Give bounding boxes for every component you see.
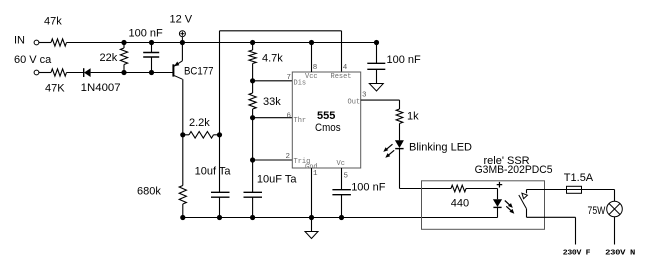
wire 100nF top stub [376, 43, 378, 64]
wire reset drop [341, 31, 343, 72]
junction dot pin6 [250, 115, 255, 120]
svg-text:Vc: Vc [337, 160, 345, 168]
wire 22k top stub [123, 43, 125, 49]
svg-text:555: 555 [317, 110, 335, 122]
capacitor 100nF supply [367, 62, 385, 64]
svg-text:680k: 680k [137, 186, 161, 198]
junction dot 22k bottom [121, 70, 126, 75]
wire pin1 down [311, 168, 313, 231]
junction dot 10uf rail [217, 215, 222, 220]
svg-text:Dis: Dis [294, 80, 307, 88]
junction dot 4.7k rail [250, 40, 255, 45]
junction dot pin7 [250, 78, 255, 83]
wire switch top out [527, 189, 567, 191]
svg-text:6: 6 [287, 113, 292, 121]
opto light arrows [505, 201, 512, 207]
relay SSR box [422, 181, 545, 230]
svg-text:10uf Ta: 10uf Ta [195, 166, 232, 178]
resistor 47k (top input) [51, 39, 67, 46]
power 12V symbol [179, 31, 185, 37]
resistor 1k [396, 109, 403, 124]
lamp 75W [607, 201, 623, 217]
resistor 33k [249, 93, 256, 109]
resistor 2.2k [189, 132, 214, 139]
svg-text:33k: 33k [263, 96, 281, 108]
svg-text:4.7k: 4.7k [262, 53, 283, 65]
svg-text:2: 2 [286, 153, 291, 161]
svg-text:47k: 47k [44, 16, 62, 28]
junction dot pin8 rail [309, 40, 314, 45]
wire diode to base [91, 72, 174, 74]
junction dot cap1 bottom [149, 70, 154, 75]
LED light arrows [385, 144, 393, 151]
wire ground rail [183, 217, 498, 219]
svg-text:12 V: 12 V [170, 14, 193, 26]
svg-text:Thr: Thr [294, 117, 307, 125]
wire pin6 [253, 117, 293, 119]
pin 8 Vcc [311, 43, 313, 73]
svg-text:7: 7 [287, 74, 292, 82]
svg-text:Cmos: Cmos [315, 122, 341, 134]
svg-text:100 nF: 100 nF [387, 54, 422, 66]
node 60V terminal [34, 70, 39, 75]
svg-text:1k: 1k [407, 111, 419, 123]
svg-text:2.2k: 2.2k [189, 117, 210, 129]
junction dot pin2 [250, 157, 255, 162]
node IN terminal [34, 40, 39, 45]
junction dot cap1 top [149, 40, 154, 45]
switch SSR contact [526, 190, 528, 194]
wire lamp to N [614, 217, 616, 245]
resistor 47K (bottom input) [51, 69, 67, 76]
resistor 680k [179, 186, 186, 205]
wire LED down [399, 149, 401, 189]
LED D1 blinking [395, 140, 404, 148]
wire cap1 bottom stub [151, 57, 153, 73]
svg-text:G3MB-202PDC5: G3MB-202PDC5 [475, 164, 553, 176]
wire 1k to LED [399, 124, 401, 141]
wire 2.2k left stub [183, 134, 189, 136]
junction dot 680k rail [180, 215, 185, 220]
svg-text:75W: 75W [588, 205, 606, 217]
wire reset link vertical [219, 31, 221, 193]
resistor 440 [451, 185, 466, 192]
wire 2.2k right stub [214, 134, 220, 136]
wire fuse to lamp [582, 189, 615, 191]
svg-text:Reset: Reset [331, 73, 352, 81]
wire 440 to opto [466, 188, 498, 190]
svg-text:22k: 22k [100, 52, 118, 64]
svg-text:1N4007: 1N4007 [81, 82, 121, 94]
wire 33k stubs [252, 81, 254, 93]
wire cap1 top stub [151, 43, 153, 53]
wire collector down [182, 79, 184, 185]
wire pin6 to pin2 [252, 118, 254, 160]
wire top rail [67, 42, 377, 44]
capacitor 100nF control [332, 189, 351, 191]
diode 1N4007 [83, 68, 85, 77]
wire 680k bottom [182, 204, 184, 218]
wire reset link horizontal [220, 30, 342, 32]
svg-text:230V F: 230V F [563, 250, 591, 258]
wire 100nF gnd stub [376, 69, 378, 83]
wire pin2 down to cap [252, 160, 254, 192]
LED opto emitter [493, 199, 502, 207]
svg-text:440: 440 [451, 198, 469, 210]
wire cap pin5 bottom [341, 195, 343, 218]
svg-text:BC177: BC177 [184, 66, 214, 78]
wire R47K to diode [67, 72, 84, 74]
transistor Q1 BC177 [172, 64, 174, 76]
junction dot 12V rail [180, 40, 185, 45]
resistor 22k [120, 48, 127, 65]
capacitor 100nF input [143, 52, 159, 54]
ground symbol chip [305, 232, 318, 239]
resistor 4.7k [249, 50, 256, 64]
wire pin2 [253, 159, 293, 161]
junction dot 100nF rail top [374, 40, 379, 45]
wire 4.7k to pin7 [252, 64, 254, 81]
svg-text:Out: Out [348, 99, 361, 107]
wire 22k bottom stub [123, 65, 125, 73]
svg-text:100 nF: 100 nF [351, 182, 386, 194]
svg-text:47K: 47K [45, 83, 65, 95]
svg-text:60 V ca: 60 V ca [14, 54, 52, 66]
junction dot 2.2k left [180, 132, 185, 137]
wire 60V to R 47K [39, 72, 51, 74]
svg-text:1: 1 [313, 170, 318, 178]
svg-text:8: 8 [313, 64, 318, 72]
wire switch to F [527, 216, 576, 218]
wire cap 10uF bottom [252, 197, 254, 217]
svg-text:+: + [496, 180, 502, 192]
svg-text:100 nF: 100 nF [129, 28, 164, 40]
capacitor C 10uF Ta [244, 191, 263, 193]
junction dot 10uF rail [250, 215, 255, 220]
svg-text:230V N: 230V N [605, 250, 635, 258]
junction dot pin1 rail [309, 215, 314, 220]
wire 4.7k top stub [252, 43, 254, 51]
svg-text:4: 4 [343, 64, 348, 72]
capacitor C 10uf Ta [211, 191, 230, 193]
svg-text:T1.5A: T1.5A [564, 172, 594, 184]
junction dot 22k top [121, 40, 126, 45]
svg-text:Vcc: Vcc [305, 73, 318, 81]
ground symbol supply cap [369, 84, 383, 92]
wire IN to R 47k [39, 42, 51, 44]
wire pin7 [253, 80, 293, 82]
wire cap 10uf bottom [219, 197, 221, 217]
svg-text:5: 5 [344, 173, 349, 181]
op-amp U1 555 body [292, 72, 360, 168]
wire pin5 down [341, 168, 343, 190]
fuse T1.5A [567, 186, 582, 193]
wire LED to SSR [400, 188, 452, 190]
wire opto cathode [497, 207, 499, 217]
svg-text:10uF Ta: 10uF Ta [257, 173, 297, 185]
wire pin3 out [361, 99, 400, 101]
svg-text:IN: IN [14, 35, 25, 47]
junction dot 2.2k right [217, 132, 222, 137]
svg-text:3: 3 [362, 92, 367, 100]
junction dot pin5 rail [339, 215, 344, 220]
svg-text:Blinking LED: Blinking LED [409, 141, 472, 153]
